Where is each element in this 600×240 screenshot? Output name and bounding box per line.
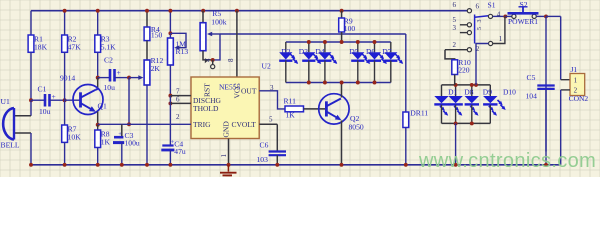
wire LED bottom bus [286,82,391,84]
wire S1 pin2 down to R10 [445,50,455,60]
wire pole4 to S2 [493,15,506,17]
pin 2 wire TRIG [98,123,191,125]
S1 pin2 stub [445,49,467,51]
svg-text:10u: 10u [104,83,116,92]
svg-text:D4: D4 [315,47,324,56]
wire D2 cathode lead [285,61,287,83]
R5 bottom arrow [205,58,209,63]
wire DR11 to rail [405,128,407,165]
op-amp U2 NE555 body [191,62,271,139]
wire D7 cathode lead [390,61,392,83]
S1 pole4 circle [488,14,492,18]
wire C1 to base node [50,99,65,101]
node R9 LED bus junction [340,40,344,44]
svg-text:100k: 100k [211,18,226,27]
wire D6 cathode lead [374,61,376,83]
wire C4 to rail [169,150,171,165]
capacitor C3 100u [113,131,140,147]
wire wiper node down to trig [128,78,130,125]
node pin8 rail junction [235,9,239,13]
S1 pin5 stub [460,24,467,26]
node C3 rail junction [120,163,124,167]
pin4 inversion bubble [211,65,215,69]
svg-text:C2: C2 [104,56,113,65]
svg-text:8050: 8050 [349,123,364,132]
svg-text:U2: U2 [262,62,271,71]
wire S2 out [536,15,546,17]
svg-text:10K: 10K [68,133,82,142]
wire R13 top lead [169,33,171,38]
node D8 bottom bus junction [470,121,474,125]
wire lower LED cathode lead x=490.3 [489,105,491,124]
wire collector node to Q1 [97,78,99,89]
node trig wire junction [127,122,131,126]
capacitor C6 103 [257,141,287,165]
potentiometer R13 1M [168,38,174,65]
wire R5 wiper to DR11 drop [220,33,406,35]
wire emitter node to R8 [97,125,99,130]
wire lower LED anode lead x=471.8 [471,85,473,96]
wire D2 anode lead [285,42,287,52]
svg-text:6: 6 [176,96,180,104]
svg-text:POWER1: POWER1 [508,17,538,26]
node R5 rail junction [201,9,205,13]
wire D6 anode lead [374,42,376,52]
node mic rail junction [29,163,33,167]
resistor R9 [339,17,356,34]
wire J1 pin1 drop [560,16,562,79]
resistor R2 [62,35,81,53]
svg-text:BELL: BELL [1,140,20,149]
LED unlabeled [434,96,448,116]
wire base node to Q1 base [65,99,81,101]
resistor R7 [62,125,81,143]
S1 lever vertical [474,15,476,44]
svg-text:10u: 10u [39,107,51,116]
node D5 bottom bus junction [356,81,360,85]
svg-text:OUT: OUT [241,87,257,96]
wire lower LED cathode lead x=455.6 [455,105,457,124]
wire lower bus to rail [455,123,457,164]
wire R3 column top [97,11,99,35]
wire pin8 column [236,11,238,77]
resistor R3 [95,35,116,53]
svg-text:2: 2 [176,113,180,121]
wire base node to R7 [64,100,66,125]
wire R2 to base node [64,52,66,100]
wire D3 anode lead [308,42,310,52]
wire R7 to rail [64,142,66,164]
wire J1 pin1 stub [561,79,570,81]
wire C5 column [545,16,547,151]
wire R12 to rail [146,85,148,165]
wire wiper node to R12 arrow [129,77,139,79]
wire mic node to C1 [31,99,44,101]
wire D4 cathode lead [324,61,326,83]
node lower bus rail junction [454,163,458,167]
wire pole1 left [476,44,489,85]
node D4 top bus junction [323,40,327,44]
svg-text:RST: RST [203,83,212,97]
resistor R1 [28,35,47,53]
svg-text:47u: 47u [174,147,186,156]
node Q1 collector junction [96,76,100,80]
wire D5 cathode lead [357,61,359,83]
node pin6 junction [168,101,172,105]
LED D5 [349,47,370,64]
switch S2 POWER1 [505,7,538,26]
wire R4 to R12 [146,41,148,60]
resistor R11 [284,97,304,120]
wire R5 top lead [202,11,204,23]
node base divider junction [63,98,67,102]
node D6 top bus junction [373,40,377,44]
node pin7 junction [168,94,172,98]
node R7 rail junction [63,163,67,167]
node C6 rail junction [275,163,279,167]
svg-text:C5: C5 [527,73,536,82]
svg-text:2: 2 [453,41,457,49]
svg-text:4: 4 [204,58,212,62]
resistor R10 [452,58,471,75]
wire lower LED bottom bus [442,122,491,124]
svg-text:R5: R5 [212,9,221,18]
node C2 output junction [127,76,131,80]
wire D5 anode lead [357,42,359,52]
svg-text:5: 5 [269,116,273,124]
svg-text:3: 3 [270,84,274,92]
node D4 bottom bus junction [323,81,327,85]
svg-text:R11: R11 [284,97,297,106]
wire lower LED anode lead x=441.5 [441,85,443,96]
svg-text:220: 220 [458,66,470,75]
svg-text:J1: J1 [571,65,578,74]
wire lower LED cathode lead x=441.5 [441,105,443,124]
wire R11 to Q2 base [304,108,327,110]
node C5 junction [544,14,548,18]
svg-text:D6: D6 [366,47,375,56]
wire mic bottom to rail [30,133,32,165]
wire S2 to J1 corner [546,15,561,17]
svg-text:103: 103 [257,155,269,164]
wire D7 anode lead [390,42,392,52]
node S1 pole drop junction [474,83,478,87]
svg-text:D2: D2 [281,47,290,56]
node GND rail junction [227,163,231,167]
node DR11 rail junction [404,163,408,167]
svg-text:U1: U1 [1,97,10,106]
node D1 bottom bus junction [454,121,458,125]
node C4 rail junction [168,163,172,167]
svg-text:6: 6 [476,3,480,11]
connector J1 CON2 [569,65,589,103]
svg-text:C1: C1 [38,84,47,93]
ground symbol [220,165,237,178]
svg-text:CVOLT: CVOLT [232,120,257,129]
LED D3 [299,47,321,64]
wire C2 to wiper node [115,77,130,79]
capacitor C4 47u [161,139,186,156]
wire D3 cathode lead [308,61,310,83]
svg-text:www.cntronics.com: www.cntronics.com [418,150,596,172]
svg-text:1: 1 [220,154,228,158]
wire pin6-7 column down to C4 [169,96,171,146]
node pin4 junction [211,58,215,62]
LED D6 [366,47,387,64]
wire lower LED cathode lead x=471.8 [471,105,473,124]
wire R9 top lead [341,11,343,18]
svg-text:D3: D3 [299,47,308,56]
wire R13 wiper loop [170,33,186,47]
wire C3 stub [121,124,123,137]
resistor R4 [144,25,162,41]
svg-text:100: 100 [344,24,356,33]
wire mic bottom stub [14,132,31,134]
wire Q1 emitter down [97,112,99,125]
wire R5 bottom lead [203,51,213,60]
S1 lever diagonal [475,16,489,17]
node C5 rail junction [544,163,548,167]
S1 pin5 circle [467,23,471,27]
svg-text:Q1: Q1 [98,102,107,111]
node D8 top bus junction [470,83,474,87]
node R8 rail junction [96,163,100,167]
svg-text:D1: D1 [448,87,457,96]
node D1 top bus junction [454,83,458,87]
transistor Q1 9014 [60,73,107,114]
node R9 rail junction [340,9,344,13]
svg-text:5: 5 [477,27,483,30]
R5 wiper arrow [212,33,221,35]
node D5 top bus junction [356,40,360,44]
node R12 rail junction [145,163,149,167]
svg-text:104: 104 [526,92,538,101]
wire pin5 down to C6 [276,124,278,151]
svg-text:DR11: DR11 [410,109,428,118]
node R4 rail junction [145,9,149,13]
capacitor C1 10u [38,84,56,116]
node D3 bottom bus junction [307,81,311,85]
wire R9 bottom lead [341,32,343,42]
S1 pin3 circle [467,30,471,34]
LED D8 [464,87,479,115]
S1 pole1 circle [489,41,493,45]
svg-text:3: 3 [477,20,483,23]
wire ground bottom rail [31,164,561,166]
wire R1 to mic node [30,52,32,100]
wire C3 to rail [121,143,123,165]
node D6 bottom bus junction [373,81,377,85]
svg-text:100u: 100u [125,138,140,147]
pin 7 stub [170,95,191,97]
svg-text:47K: 47K [68,43,82,52]
wire C5 to rail [545,89,547,165]
svg-text:C6: C6 [260,141,269,150]
potentiometer R12 2K [144,60,150,85]
wire Q2 collector up [341,83,343,98]
svg-text:150: 150 [151,30,163,39]
LED D4 [315,47,337,64]
transistor Q2 8050 [319,94,364,132]
pin 6 stub [170,102,191,104]
wire J1 pin2 stub [561,89,570,91]
wire VCC top rail [31,10,468,12]
svg-text:D7: D7 [382,47,391,56]
svg-text:1: 1 [499,35,503,43]
svg-text:9014: 9014 [60,73,75,82]
node Q1 emitter junction [96,123,100,127]
LED D10 arrows [498,100,506,110]
LED D1 [448,87,463,115]
wire collector node to C2 [98,77,109,79]
wire Q2 emitter down [341,121,343,165]
wire R13 column top [169,11,171,34]
node LED bus to Q2 junction [340,81,344,85]
resistor DR11 [403,109,428,128]
svg-text:8: 8 [227,58,235,62]
svg-text:3: 3 [453,24,457,32]
svg-text:VCC: VCC [233,83,242,98]
wire lower LED top bus [442,84,491,86]
svg-text:1K: 1K [286,111,296,120]
node R13 top junction [168,31,172,35]
wire drop to DR11 [405,34,407,112]
wire R3 to collector node [97,52,99,77]
S1 pin2 circle [467,48,471,52]
wire lower LED anode lead x=455.6 [455,85,457,96]
svg-text:D8: D8 [464,87,473,96]
svg-text:D5: D5 [349,47,358,56]
svg-text:1: 1 [574,76,578,84]
svg-text:D10: D10 [503,88,516,97]
svg-text:+: + [118,131,122,138]
wire D4 anode lead [324,42,326,52]
wire R10 to lower bus [454,75,456,85]
LED D9 [483,87,498,115]
wire mic node down [30,100,32,116]
potentiometer R5 100k [200,23,206,51]
node R2 rail junction [63,9,67,13]
wire R2 column top [64,11,66,35]
wire mic top stub [14,115,31,117]
svg-text:TRIG: TRIG [193,120,211,129]
node mic-R1 junction [29,98,33,102]
wire R8 to rail [97,148,99,165]
wire LED top bus [286,41,391,43]
svg-text:7: 7 [176,88,180,96]
svg-text:18K: 18K [34,43,48,52]
svg-text:6: 6 [453,1,457,9]
svg-text:+: + [117,68,121,77]
pin 3 stub OUT [259,91,285,109]
wire R13 bottom to pin7 [169,65,171,96]
wire R5 wiper [213,34,220,60]
LED D2 [279,47,298,64]
wire pole1 up [493,16,505,43]
svg-text:2K: 2K [151,64,161,73]
wire pin4 lead [212,60,214,65]
node Q2 emitter rail junction [340,163,344,167]
pin 5 stub CVOLT [259,123,277,125]
S1 pin6 circle [467,9,471,13]
node R13 rail junction [168,9,172,13]
svg-text:S1: S1 [488,1,496,10]
svg-text:1K: 1K [101,138,111,147]
node D3 top bus junction [307,40,311,44]
S1 pin3 stub [460,32,467,34]
microphone U1 BELL [1,97,20,149]
LED D7 [382,47,403,64]
svg-text:5.1K: 5.1K [101,43,116,52]
resistor R8 [95,130,111,148]
node R3 rail junction [96,9,100,13]
capacitor C5 104 [526,73,555,101]
wire R4 column top [146,11,148,27]
wire J1 pin2 to rail [560,90,562,165]
wire C6 to rail [276,155,278,165]
wire lower LED anode lead x=490.3 [489,85,491,96]
pin 1 GND lead [228,139,230,165]
capacitor C2 10u [104,56,121,92]
svg-text:THOLD: THOLD [193,104,219,113]
svg-text:CON2: CON2 [569,94,589,103]
svg-text:GND: GND [222,121,231,138]
node S2 input junction [503,14,507,18]
svg-text:5: 5 [453,16,457,24]
svg-text:D9: D9 [483,87,492,96]
wire R1 column top [30,11,32,35]
